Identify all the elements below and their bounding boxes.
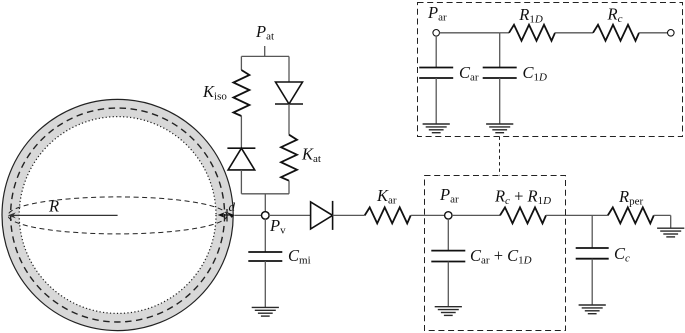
dashed box bottom (lumped model) <box>425 176 566 331</box>
ground under Car+C1D <box>435 307 462 316</box>
label Kar <box>376 186 397 207</box>
label Par top <box>427 3 447 24</box>
diode D2 down <box>275 82 303 104</box>
label Pat <box>255 22 274 43</box>
svg-text:R1D: R1D <box>518 5 543 26</box>
wire rail to Pv <box>264 194 266 212</box>
svg-text:Rc + R1D: Rc + R1D <box>494 187 551 208</box>
ground right of Rper <box>657 228 684 237</box>
svg-text:Rper: Rper <box>618 187 643 208</box>
label d <box>229 199 236 214</box>
svg-text:Pat: Pat <box>255 22 274 43</box>
label C1D <box>523 63 548 84</box>
wire Kat lower <box>288 181 290 194</box>
wire Par to RcR1D <box>452 214 500 216</box>
wire D1 lower <box>240 170 242 194</box>
node Pv <box>262 212 270 220</box>
wire Rc to terminal <box>639 32 668 34</box>
wire Pv down <box>264 219 266 252</box>
label Rc <box>607 5 623 26</box>
label R <box>48 197 59 216</box>
svg-text:Kat: Kat <box>301 145 321 166</box>
svg-text:R: R <box>48 197 59 216</box>
wire C1D to ground <box>499 78 501 124</box>
label R1D <box>518 5 543 26</box>
diode D3 <box>311 201 333 230</box>
label Cc <box>614 244 630 265</box>
node Par <box>445 212 452 219</box>
label Kat <box>301 145 321 166</box>
wire CarC1D to ground <box>447 262 449 307</box>
resistor Rper <box>608 207 654 223</box>
label Rc+R1D <box>494 187 551 208</box>
wire Kar to Par <box>411 214 445 216</box>
svg-text:Car: Car <box>459 63 479 84</box>
wire Car down <box>435 36 437 68</box>
wire Kiso upper <box>240 56 242 70</box>
wire D2 to Kat <box>288 104 290 135</box>
wire sphere to Pv <box>234 214 261 216</box>
svg-text:Pv: Pv <box>269 216 286 237</box>
svg-text:Rc: Rc <box>607 5 623 26</box>
dashed connector between boxes <box>499 137 501 176</box>
label Par bottom <box>439 185 459 206</box>
equator dashed ellipse <box>8 197 227 234</box>
capacitor Car <box>419 68 453 79</box>
resistor R1D <box>509 25 555 41</box>
ventricle sphere outer wall <box>2 99 233 330</box>
label Car <box>459 63 479 84</box>
wire Cmi to ground <box>264 261 266 307</box>
label Cmi <box>288 246 311 267</box>
wire junction to R1D <box>500 32 509 34</box>
wire Kat upper <box>288 56 290 82</box>
ground under C1D <box>486 124 513 133</box>
svg-text:Par: Par <box>439 185 459 206</box>
wire Par to junction top <box>439 32 499 34</box>
wire top rail <box>241 55 289 57</box>
resistor Rc+R1D <box>500 207 546 223</box>
wall thickness arrow d <box>218 209 235 222</box>
dashed box top (detail inset) <box>418 3 683 137</box>
wire Par down <box>447 219 449 251</box>
wire D3 to Kar <box>333 214 365 216</box>
radius arrow R <box>8 212 118 218</box>
capacitor C1D <box>483 68 517 79</box>
svg-text:d: d <box>229 199 236 214</box>
resistor Rc <box>593 25 639 41</box>
wire RcR1D to junction <box>546 214 608 216</box>
capacitor Cmi <box>248 252 282 261</box>
resistor Kat <box>281 135 297 181</box>
terminal node right <box>668 30 675 37</box>
node Par top <box>433 30 440 37</box>
wire Kiso to D1 <box>240 116 242 148</box>
wire Car to ground <box>435 78 437 124</box>
svg-text:Kar: Kar <box>376 186 397 207</box>
wire R1D to Rc <box>555 32 593 34</box>
svg-text:Kiso: Kiso <box>202 82 227 103</box>
ground under Cmi <box>252 307 279 316</box>
label Rper <box>618 187 643 208</box>
ground under Cc <box>579 305 606 314</box>
diode D1 up <box>227 148 255 170</box>
svg-text:Par: Par <box>427 3 447 24</box>
svg-text:Cc: Cc <box>614 244 630 265</box>
wire Pat stub <box>264 46 266 56</box>
wire bottom rail <box>241 193 289 195</box>
capacitor Car+C1D <box>431 251 465 262</box>
svg-text:Car + C1D: Car + C1D <box>470 246 532 267</box>
wire Rper to ground <box>654 215 671 228</box>
wire Pv to D3 <box>269 214 311 216</box>
svg-text:C1D: C1D <box>523 63 548 84</box>
capacitor Cc <box>576 248 609 259</box>
wire Cc to ground <box>591 259 593 305</box>
label Kiso <box>202 82 227 103</box>
resistor Kiso <box>233 70 249 116</box>
resistor Kar <box>365 207 411 223</box>
ventricle sphere inner wall dotted circle <box>19 117 216 314</box>
ground under Car <box>423 124 450 133</box>
svg-text:Cmi: Cmi <box>288 246 311 267</box>
wire Cc down <box>591 215 593 248</box>
ventricle sphere mid-wall dashed circle <box>11 108 225 322</box>
label Pv <box>269 216 286 237</box>
wire C1D junction down <box>499 33 501 68</box>
label Car+C1D <box>470 246 532 267</box>
